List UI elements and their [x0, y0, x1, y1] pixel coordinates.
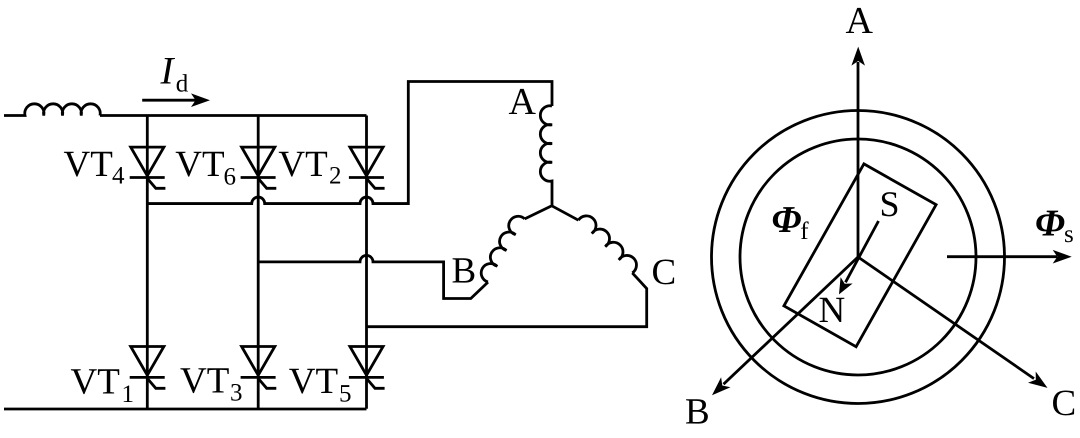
stator inner circle	[740, 139, 976, 375]
axis A arrow	[857, 62, 860, 257]
svg-text:VT: VT	[175, 144, 224, 185]
wire cathode leg VT4/VT1 column	[146, 116, 149, 409]
thyristor VT6	[241, 147, 277, 188]
svg-text:B: B	[452, 251, 477, 292]
wire VT6/VT3 column	[257, 116, 260, 409]
arrow flux Phi-s	[947, 255, 1057, 258]
svg-text:Φ: Φ	[1035, 203, 1065, 245]
svg-text:S: S	[880, 184, 900, 224]
svg-text:VT: VT	[71, 362, 120, 403]
svg-text:N: N	[819, 290, 846, 331]
svg-text:C: C	[652, 252, 677, 293]
svg-text:1: 1	[122, 381, 135, 408]
thyristor VT3	[241, 347, 277, 389]
winding B (stator phase B coil)	[481, 216, 524, 282]
svg-text:5: 5	[339, 381, 352, 408]
svg-text:3: 3	[230, 380, 243, 407]
svg-text:B: B	[685, 392, 710, 433]
svg-text:A: A	[846, 0, 874, 42]
rotor magnet rectangle	[784, 164, 936, 347]
arrow rotor flux S to N	[846, 221, 879, 282]
svg-text:4: 4	[112, 163, 125, 190]
svg-text:C: C	[1052, 383, 1077, 424]
node star point	[525, 206, 579, 220]
thyristor VT2	[349, 147, 385, 188]
svg-text:I: I	[160, 49, 176, 92]
svg-text:f: f	[800, 218, 809, 245]
wire top dc bus	[100, 114, 367, 117]
winding C (stator phase C coil)	[578, 216, 636, 273]
svg-text:VT: VT	[64, 144, 113, 185]
thyristor VT1	[130, 347, 166, 389]
thyristor VT5	[349, 347, 385, 389]
wire phase C output	[367, 273, 647, 327]
axis C arrow	[858, 257, 1034, 379]
wire phase A output (with crossover hops)	[147, 82, 552, 204]
svg-text:s: s	[1064, 221, 1074, 248]
svg-text:VT: VT	[278, 144, 327, 185]
svg-text:A: A	[509, 81, 537, 123]
thyristor VT4	[130, 147, 166, 188]
svg-text:VT: VT	[180, 361, 229, 402]
svg-text:d: d	[176, 71, 189, 98]
wire phase B output (with crossover hop)	[258, 255, 488, 298]
svg-text:Φ: Φ	[772, 199, 802, 241]
inductor Ld (dc smoothing reactor)	[4, 104, 100, 116]
wire VT2/VT5 column	[365, 116, 368, 409]
svg-text:VT: VT	[289, 361, 338, 402]
arrow Id current direction	[142, 99, 196, 102]
winding A (stator phase A coil)	[540, 106, 552, 206]
svg-text:6: 6	[224, 164, 237, 191]
svg-text:2: 2	[329, 163, 342, 190]
axis B arrow	[724, 257, 859, 384]
stator outer circle	[712, 111, 1005, 404]
wire bottom dc bus	[4, 408, 367, 411]
